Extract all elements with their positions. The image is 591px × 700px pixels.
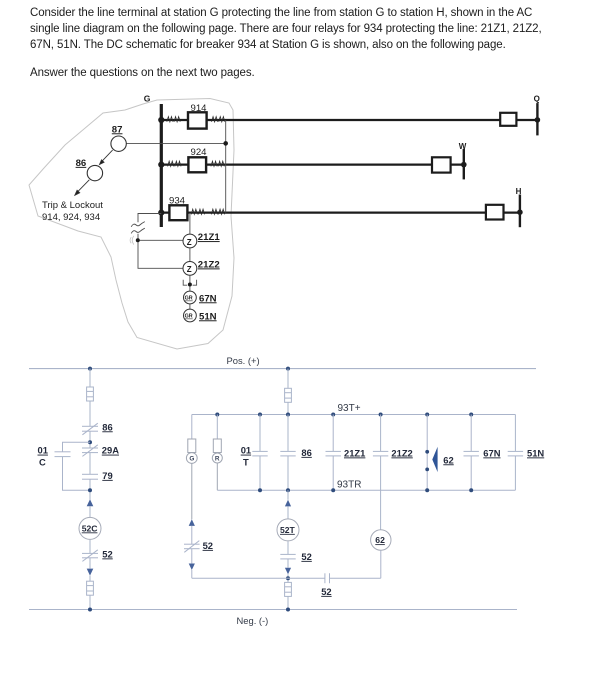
wire arrow to fuse [89,576,91,582]
wire to relay 87 [126,142,225,144]
svg-text:W: W [459,142,467,151]
contact 52t [280,554,295,559]
bus G [160,104,163,227]
svg-text:H: H [516,187,522,196]
svg-text:62: 62 [443,454,453,465]
fuse F1 [87,387,94,401]
wire below 21Z2 [189,275,191,284]
CT marks right of breaker 924 [211,161,224,166]
wire fuse to 93T+ [287,402,289,414]
node neg left junction [88,608,92,612]
contact 21Z1b branch [326,415,341,491]
relay 86 [76,158,103,181]
breaker H-end square [486,205,504,220]
contact 51N branch [508,415,523,491]
svg-text:21Z1: 21Z1 [198,232,221,243]
wire 62 to bottom wire [380,550,382,578]
svg-text:Pos. (+): Pos. (+) [227,355,260,366]
lamp R branch [212,415,222,491]
svg-text:86: 86 [102,421,112,432]
node 93TR junctions [258,488,473,492]
wire junction to 67N [189,287,191,310]
wire contact to arrow down [287,559,289,568]
svg-text:52: 52 [102,548,112,559]
arrow 86 to trip text [75,180,89,195]
arrow up 52C [87,499,94,506]
contact 01T branch [252,415,267,491]
wire fuse to neg [89,595,91,609]
arrow down to fuse [87,569,94,576]
svg-text:52C: 52C [82,523,98,533]
contact 29A [82,445,98,457]
node lead end junction with brackets [183,280,196,287]
svg-text:Q: Q [534,95,540,104]
wire 93TR to 52T [287,490,289,518]
wire relay tap from bus [138,214,183,269]
wire CT secondary vertical [225,120,227,213]
svg-text:GR: GR [185,296,193,302]
svg-text:Z: Z [187,265,192,274]
svg-text:52: 52 [301,551,311,562]
wire parallel 01C branch [63,442,91,490]
wire bottom horizontal [192,577,381,579]
node relay tap junction [130,236,140,245]
svg-text:87: 87 [112,124,123,135]
svg-text:Trip & Lockout: Trip & Lockout [42,200,103,211]
relay 87 [111,124,126,151]
svg-text:01: 01 [241,445,251,456]
fuse F4 [285,582,292,596]
wire row 924 to W [161,164,464,166]
wire 52T to contact [287,541,289,554]
svg-text:67N: 67N [483,447,500,458]
wire row 934 to H [161,212,520,214]
rail Pos [29,355,536,368]
wire to bottom junction [287,574,289,582]
contact 52b bottom [325,573,330,583]
svg-text:86: 86 [301,447,311,458]
breaker 924 [188,147,207,173]
coil 62 wedge [432,447,453,472]
fuse F2 [87,581,94,595]
svg-text:79: 79 [102,470,112,481]
arrow down 52T branch [285,568,291,575]
contact 01C [55,452,71,457]
breaker 934 [169,195,187,220]
svg-text:GR: GR [185,314,193,320]
arrow down G branch [189,564,195,571]
lamp G branch [186,415,197,520]
svg-text:R: R [215,456,220,463]
relay 21Z1 [183,232,220,248]
svg-text:T: T [243,456,249,467]
wire contact to arrow [89,558,91,569]
node bus junction 934 [158,210,164,216]
svg-text:C: C [39,456,46,467]
breaker 914 [188,103,207,129]
bus 93TR [217,480,515,491]
arrow up 52T [285,500,291,507]
contact 52g [184,541,200,553]
node 93T+ junctions [215,413,473,417]
CT marks left of breaker 914 [167,117,180,122]
svg-text:51N: 51N [199,311,217,322]
CT marks right of breaker 914 [212,117,225,122]
svg-text:Z: Z [187,238,192,247]
bus W [459,142,467,180]
svg-text:52: 52 [203,540,213,551]
contact 86a [82,423,98,435]
coil 52C [79,517,101,539]
CT marks left of breaker 924 [168,161,181,166]
CT lead break marks [131,222,145,234]
svg-text:914: 914 [191,103,208,114]
relay 51N [184,309,217,322]
coil 62 circle [371,530,391,550]
node bus junction 914 [158,117,164,123]
contact 21Z2b branch [373,415,388,530]
coil 52T [277,519,299,541]
node neg center junction [286,608,290,612]
node pos center junction [286,367,290,371]
arrow 87 to 86 [100,150,113,164]
svg-text:G: G [144,94,151,104]
svg-text:93TR: 93TR [337,480,361,491]
wire 52C to contact [89,540,91,554]
contact 79 [82,474,98,479]
svg-text:924: 924 [191,147,208,158]
breaker W-end square [432,157,451,172]
wire to 52C coil [89,506,91,517]
wire pos to fuse F3 [287,369,289,389]
bus 93T+ [192,403,516,415]
node CT tap junction [223,141,228,146]
node G label [144,94,151,104]
svg-text:29A: 29A [102,445,119,456]
svg-text:62: 62 [375,535,385,545]
wire contact to arrow down [191,549,193,564]
node pos left junction [88,367,92,371]
svg-text:Neg. (-): Neg. (-) [237,615,269,626]
svg-text:934: 934 [169,195,186,206]
relay 21Z2 [183,259,220,275]
svg-text:86: 86 [76,158,87,169]
arrow up G branch [189,519,195,526]
svg-text:21Z2: 21Z2 [391,447,412,458]
node rejoin junction [88,488,92,492]
svg-text:01: 01 [38,445,48,456]
station G cloud boundary [29,99,234,350]
svg-text:93T+: 93T+ [338,403,361,414]
svg-text:914, 924, 934: 914, 924, 934 [42,212,100,223]
bus H [516,187,523,227]
node bottom junction [286,576,290,580]
wire left branch upper [89,369,91,500]
svg-text:52T: 52T [280,525,296,535]
contact 86b branch [280,415,295,491]
rail Neg [29,610,517,626]
svg-text:G: G [189,456,194,463]
wire fuse to neg [287,596,289,609]
svg-text:67N: 67N [199,293,217,304]
wire to contact 52g [191,526,193,544]
CT marks right of breaker 934 [191,209,225,214]
wire row 914 to Q [161,119,537,121]
fuse F3 [285,388,292,402]
svg-text:21Z1: 21Z1 [344,447,365,458]
svg-text:52: 52 [321,586,331,597]
contact 52a [82,550,98,562]
wire CT to relay 21Z1 [189,214,191,234]
node split junction [88,440,92,444]
bus Q [534,95,541,136]
svg-text:21Z2: 21Z2 [198,259,220,270]
coil 62 wedge branch [426,415,428,491]
node bus junction 924 [158,162,164,168]
breaker Q-end square [500,113,516,126]
wire 21Z1 to 21Z2 [189,248,191,262]
relay 67N [184,291,217,304]
label trip and lockout [42,200,103,223]
wire G branch to bottom corner [191,570,193,578]
svg-text:51N: 51N [527,447,544,458]
contact 67N branch [464,415,479,491]
